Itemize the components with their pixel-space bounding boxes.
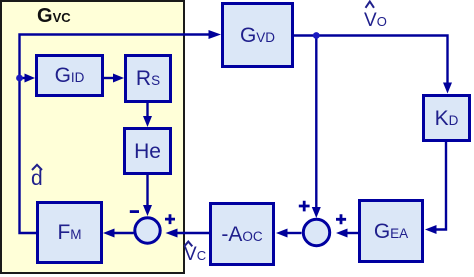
summing junction S1 xyxy=(135,218,160,243)
block Gvd xyxy=(221,2,294,68)
arrowhead into Gvd xyxy=(209,30,222,39)
block Rs xyxy=(124,54,172,103)
block Gid xyxy=(35,54,104,97)
block He xyxy=(123,127,172,175)
label d-hat xyxy=(31,168,43,189)
summing junction S2 xyxy=(303,219,329,245)
node dot on vo wire xyxy=(313,32,320,39)
arrowhead into S2 right xyxy=(336,229,348,238)
arrowhead into Fm xyxy=(103,229,115,238)
arrowhead into Rs xyxy=(113,74,124,83)
block Fm xyxy=(36,201,103,264)
wire S2 to Aoc xyxy=(287,232,302,234)
wire S1 to Fm xyxy=(114,232,134,234)
wire Gid to Rs xyxy=(104,77,115,79)
wire Gvd output right and down to Kd xyxy=(294,36,448,84)
minus sign at S1 top input xyxy=(130,210,139,213)
wire Rs to He xyxy=(146,103,148,118)
arrowhead into S1 top xyxy=(143,205,152,216)
wire Aoc to S1 xyxy=(176,232,209,234)
arrowhead into Aoc xyxy=(276,229,288,238)
label Gvc xyxy=(37,6,71,26)
label vc-hat xyxy=(184,245,206,264)
node dot on d-hat wire xyxy=(16,75,23,82)
wire branch to Gid xyxy=(20,77,27,79)
block Gea xyxy=(358,199,424,263)
arrowhead into Gid xyxy=(25,74,36,83)
block -Aoc xyxy=(209,202,275,266)
arrowhead into S2 top xyxy=(312,207,321,218)
hat over vc xyxy=(184,242,192,247)
hat over vo xyxy=(366,2,375,8)
arrowhead into S1 right xyxy=(166,229,178,238)
wire Gea to S2 xyxy=(347,232,359,234)
arrowhead into Kd top xyxy=(443,83,452,94)
arrowhead into Gea xyxy=(425,225,437,234)
wire He to summing junction S1 xyxy=(146,175,148,206)
plus sign at S2 right input xyxy=(336,214,346,224)
block Kd xyxy=(422,94,471,142)
arrowhead into He xyxy=(143,116,152,127)
wire d-hat: Fm output up and right to Gvd xyxy=(20,35,211,234)
wire Kd down and left to Gea xyxy=(436,142,446,230)
hat over d xyxy=(32,165,42,170)
label vo-hat xyxy=(364,11,387,30)
container box Gvc xyxy=(0,0,185,274)
plus sign at S2 top input xyxy=(299,201,310,212)
plus sign at S1 right input xyxy=(165,214,175,224)
wire node to S2 top xyxy=(315,36,317,208)
